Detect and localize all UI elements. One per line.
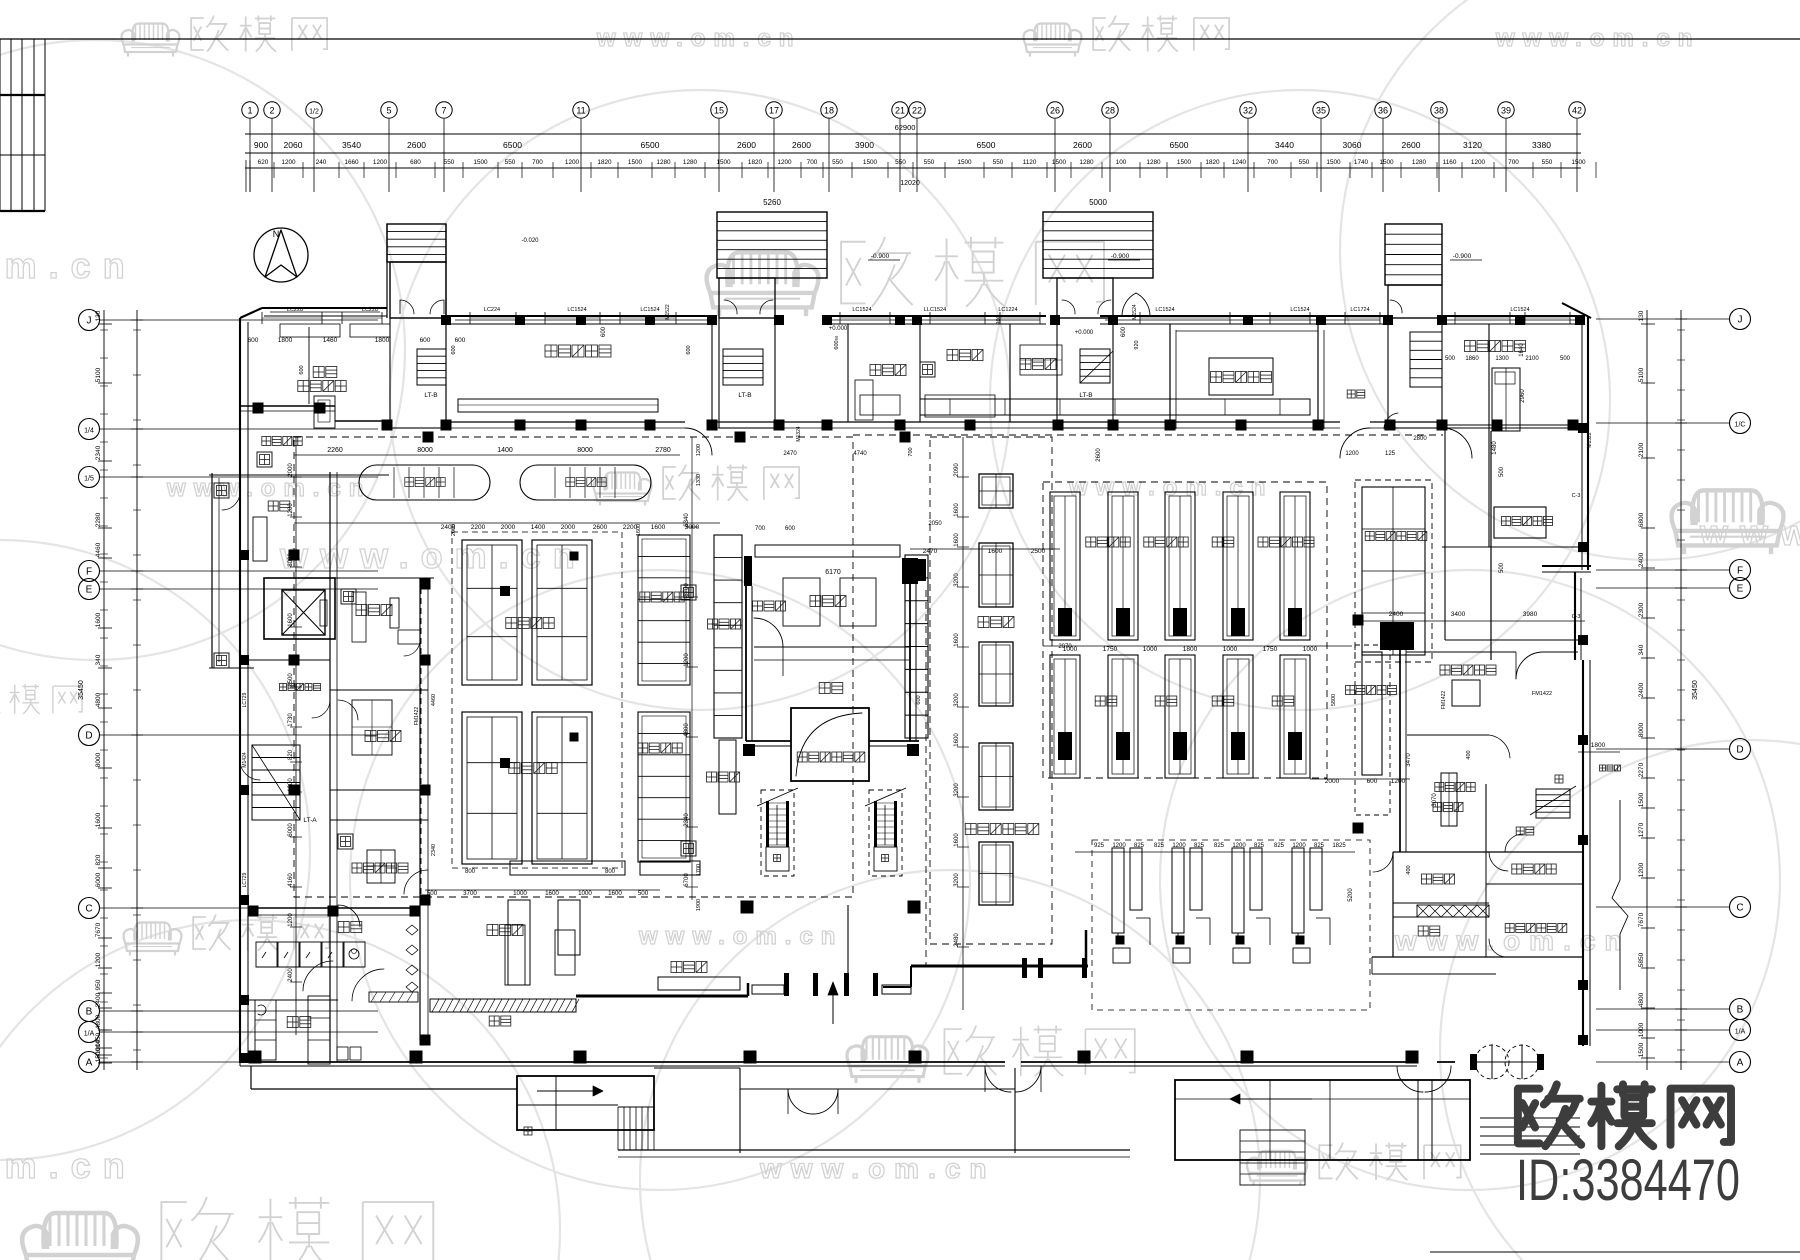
svg-text:825: 825 — [1134, 843, 1145, 849]
svg-text:4800: 4800 — [95, 692, 102, 707]
weak power room — [1516, 827, 1534, 835]
svg-text:500: 500 — [1560, 356, 1571, 362]
svg-text:700: 700 — [807, 159, 818, 166]
svg-text:1200: 1200 — [1345, 451, 1359, 457]
svg-text:2050: 2050 — [928, 521, 942, 527]
svg-text:-0.900: -0.900 — [871, 253, 890, 260]
svg-text:600: 600 — [601, 326, 607, 337]
svg-text:1500: 1500 — [95, 1047, 102, 1062]
svg-text:100: 100 — [1116, 159, 1127, 166]
svg-text:1600: 1600 — [954, 503, 960, 517]
svg-text:2600: 2600 — [593, 524, 608, 531]
svg-text:6500: 6500 — [1170, 140, 1189, 150]
svg-text:LT-B: LT-B — [1079, 392, 1092, 399]
svg-text:C: C — [85, 904, 92, 915]
svg-text:17: 17 — [769, 106, 779, 116]
svg-text:1400: 1400 — [497, 447, 513, 454]
svg-text:11: 11 — [576, 106, 585, 116]
svg-text:7670: 7670 — [95, 922, 102, 937]
svg-text:550: 550 — [924, 159, 935, 166]
east site break line — [1619, 800, 1621, 880]
stair to upper right — [1536, 789, 1570, 818]
top dimension line 1 — [245, 133, 1581, 135]
svg-text:www.om.cn: www.om.cn — [1068, 474, 1273, 501]
svg-text:LC729: LC729 — [242, 692, 248, 707]
north wall left section — [240, 308, 262, 318]
svg-text:1500: 1500 — [473, 159, 488, 166]
svg-text:1600: 1600 — [636, 524, 642, 536]
svg-text:1000: 1000 — [513, 890, 527, 897]
produce shelf blocks group2 — [462, 712, 522, 864]
warehouse walls — [744, 556, 752, 586]
svg-text:3470: 3470 — [1406, 753, 1412, 767]
left wing door arcs — [222, 492, 240, 510]
svg-text:62900: 62900 — [895, 123, 916, 132]
svg-text:6170: 6170 — [825, 569, 841, 576]
imported food zone — [1407, 734, 1489, 736]
svg-text:500: 500 — [1499, 562, 1505, 573]
svg-text:E: E — [86, 585, 93, 596]
svg-text:825: 825 — [1214, 843, 1225, 849]
svg-text:130: 130 — [1638, 310, 1645, 321]
svg-text:550: 550 — [832, 159, 843, 166]
dashed boundary checkout — [1092, 840, 1370, 1010]
svg-text:42: 42 — [1572, 106, 1582, 116]
bottom separate line — [1430, 1251, 1800, 1253]
svg-text:1600: 1600 — [288, 613, 294, 627]
water riser boxes — [920, 362, 935, 377]
svg-text:1200: 1200 — [281, 159, 296, 166]
svg-text:6000: 6000 — [95, 872, 102, 887]
svg-text:925: 925 — [1094, 843, 1105, 849]
revolving door — [1475, 1045, 1509, 1079]
svg-text:www.om.cn: www.om.cn — [638, 923, 843, 950]
svg-text:1820: 1820 — [1205, 159, 1220, 166]
svg-text:C-3: C-3 — [1572, 493, 1581, 499]
detergent zone room — [1494, 507, 1546, 538]
svg-text:C-3: C-3 — [1572, 614, 1581, 620]
svg-text:920: 920 — [1134, 340, 1140, 349]
svg-text:D: D — [1736, 745, 1743, 756]
svg-text:LT-A: LT-A — [303, 817, 317, 824]
svg-text:5: 5 — [386, 106, 391, 116]
svg-text:2600: 2600 — [792, 140, 811, 150]
svg-text:3380: 3380 — [1532, 140, 1551, 150]
service window crosshatch — [1417, 905, 1489, 917]
svg-text:3400: 3400 — [1451, 611, 1466, 618]
svg-text:35450: 35450 — [1692, 680, 1699, 700]
svg-text:2000: 2000 — [561, 524, 576, 531]
svg-text:1500: 1500 — [863, 159, 878, 166]
svg-text:1820: 1820 — [597, 159, 612, 166]
svg-text:500: 500 — [1499, 466, 1505, 477]
svg-text:825: 825 — [1314, 843, 1325, 849]
cigarette zone — [1355, 645, 1390, 815]
svg-text:1600: 1600 — [608, 890, 622, 897]
svg-text:LC1524: LC1524 — [567, 307, 586, 313]
site wall columns — [249, 1051, 262, 1064]
svg-text:1820: 1820 — [748, 159, 763, 166]
svg-text:2100: 2100 — [1525, 356, 1539, 362]
svg-text:600: 600 — [686, 345, 692, 354]
svg-text:1800: 1800 — [278, 337, 293, 344]
svg-text:2: 2 — [269, 106, 274, 116]
svg-text:www.om.cn: www.om.cn — [759, 1153, 996, 1184]
svg-text:4740: 4740 — [853, 451, 867, 457]
porch outswing doors — [985, 1066, 1011, 1092]
svg-text:3070: 3070 — [1432, 793, 1438, 807]
room labels top strip — [313, 367, 337, 378]
svg-text:700: 700 — [908, 447, 914, 456]
svg-text:1/4: 1/4 — [84, 428, 94, 435]
svg-text:7670: 7670 — [1638, 912, 1645, 927]
svg-text:1200: 1200 — [777, 159, 792, 166]
svg-text:A: A — [86, 1058, 93, 1069]
female stalls — [255, 1000, 276, 1060]
svg-text:1860: 1860 — [1465, 356, 1479, 362]
svg-text:340: 340 — [95, 654, 102, 665]
svg-text:6000: 6000 — [288, 823, 294, 837]
svg-text:1500: 1500 — [1326, 159, 1341, 166]
checkout lanes — [1112, 848, 1124, 933]
svg-text:600: 600 — [299, 365, 305, 374]
watermark logos row3 — [124, 915, 330, 956]
svg-text:FM1422: FM1422 — [414, 707, 420, 726]
svg-text:LC1524: LC1524 — [640, 307, 659, 313]
svg-text:2400: 2400 — [288, 968, 294, 982]
svg-text:400: 400 — [1406, 865, 1412, 874]
svg-text:2480: 2480 — [954, 933, 960, 947]
svg-text:3200: 3200 — [954, 873, 960, 887]
svg-text:1600: 1600 — [954, 533, 960, 547]
cosmetics room bottom wall — [1443, 424, 1585, 426]
north compass — [254, 228, 308, 282]
warehouse inner wall with door — [754, 646, 909, 648]
svg-text:B: B — [86, 1007, 93, 1018]
svg-text:700: 700 — [532, 159, 543, 166]
svg-text:www.om.cn: www.om.cn — [0, 245, 137, 286]
top dimension line 2 with ticks — [245, 167, 1581, 169]
promoter tables — [505, 925, 525, 985]
svg-text:1280: 1280 — [1146, 159, 1161, 166]
svg-text:1280: 1280 — [1079, 159, 1094, 166]
svg-text:1/2: 1/2 — [309, 109, 319, 116]
spice/grain counters — [755, 545, 900, 557]
plaza left outline — [250, 1066, 252, 1089]
svg-text:6500: 6500 — [503, 140, 522, 150]
svg-text:1740: 1740 — [1354, 159, 1369, 166]
svg-text:2340: 2340 — [431, 844, 437, 856]
svg-text:1600: 1600 — [954, 633, 960, 647]
svg-text:1: 1 — [247, 106, 252, 116]
seafood room fixtures — [314, 396, 335, 428]
svg-text:ID:3384470: ID:3384470 — [1516, 1148, 1740, 1213]
watermark circles — [390, 90, 1010, 710]
svg-text:A: A — [1737, 1058, 1744, 1069]
svg-text:LC228: LC228 — [362, 307, 378, 313]
svg-text:8000: 8000 — [417, 447, 433, 454]
svg-text:800: 800 — [465, 869, 476, 875]
svg-text:680: 680 — [410, 159, 421, 166]
escalators — [761, 790, 794, 876]
svg-text:www.om.cn: www.om.cn — [0, 1145, 137, 1186]
svg-text:130: 130 — [95, 310, 102, 321]
svg-text:8000: 8000 — [95, 752, 102, 767]
svg-text:1120: 1120 — [1023, 159, 1037, 166]
grain east rack — [905, 555, 928, 738]
svg-text:1200: 1200 — [684, 653, 690, 667]
svg-text:+0.000: +0.000 — [1075, 330, 1094, 336]
columns center floor — [1353, 615, 1364, 626]
svg-text:2270: 2270 — [1638, 762, 1645, 777]
svg-text:1600: 1600 — [954, 733, 960, 747]
cosmetics furniture — [1492, 368, 1520, 431]
svg-text:550: 550 — [1299, 159, 1310, 166]
svg-text:www.om.cn: www.om.cn — [279, 535, 587, 576]
svg-text:1200: 1200 — [1292, 843, 1306, 849]
svg-text:39: 39 — [1501, 106, 1511, 116]
svg-text:2340: 2340 — [95, 445, 102, 460]
svg-text:1660: 1660 — [344, 159, 359, 166]
svg-text:5800: 5800 — [1331, 694, 1337, 706]
svg-text:1730: 1730 — [288, 713, 294, 727]
svg-text:8000: 8000 — [1638, 722, 1645, 737]
svg-text:M1524: M1524 — [1132, 304, 1138, 320]
svg-text:1200: 1200 — [696, 444, 702, 456]
watermark big instances — [707, 237, 1104, 316]
svg-text:LLC1524: LLC1524 — [924, 307, 946, 313]
svg-text:1500: 1500 — [1052, 159, 1067, 166]
svg-text:1600: 1600 — [95, 812, 102, 827]
svg-text:550: 550 — [1542, 159, 1553, 166]
svg-text:1000: 1000 — [1303, 646, 1318, 653]
svg-text:2070: 2070 — [1058, 644, 1072, 650]
grid-A site wall — [240, 1061, 1005, 1063]
svg-text:2600: 2600 — [1402, 140, 1421, 150]
svg-text:LT-B: LT-B — [738, 392, 751, 399]
svg-text:B: B — [1737, 1005, 1744, 1016]
svg-text:3200: 3200 — [954, 783, 960, 797]
svg-text:2600: 2600 — [407, 140, 426, 150]
svg-text:550: 550 — [993, 159, 1004, 166]
wine zone — [1399, 650, 1401, 852]
svg-text:2060: 2060 — [284, 140, 303, 150]
svg-text:5850: 5850 — [1638, 952, 1645, 967]
svg-text:550: 550 — [505, 159, 516, 166]
svg-text:2400: 2400 — [1638, 682, 1645, 697]
svg-text:1280: 1280 — [683, 159, 698, 166]
svg-text:1460: 1460 — [323, 337, 338, 344]
svg-text:M1324: M1324 — [796, 426, 802, 442]
svg-text:5260: 5260 — [763, 198, 781, 207]
north strip south wall — [446, 421, 685, 423]
svg-text:M: M — [834, 336, 839, 340]
svg-text:550: 550 — [895, 159, 906, 166]
produce shelf blocks group1 — [462, 540, 522, 685]
svg-text:600: 600 — [1121, 326, 1127, 337]
svg-text:1200: 1200 — [1638, 862, 1645, 877]
svg-text:825: 825 — [1254, 843, 1265, 849]
north wall mid section — [446, 315, 717, 317]
promo zone — [671, 962, 707, 973]
interior vertical dim line x690 — [691, 437, 693, 900]
svg-text:1300: 1300 — [1495, 356, 1509, 362]
svg-text:1/5: 1/5 — [84, 476, 94, 483]
svg-text:1700: 1700 — [696, 864, 702, 876]
svg-text:600: 600 — [916, 695, 922, 704]
center porch — [654, 1067, 740, 1069]
svg-text:5100: 5100 — [1638, 367, 1645, 382]
svg-text:5200: 5200 — [1348, 888, 1354, 902]
svg-text:825: 825 — [1194, 843, 1205, 849]
svg-text:2200: 2200 — [471, 524, 486, 531]
svg-text:1500: 1500 — [957, 159, 972, 166]
svg-text:500: 500 — [638, 890, 649, 897]
svg-text:1200: 1200 — [95, 952, 102, 967]
svg-text:1200: 1200 — [1112, 843, 1126, 849]
left grid bubbles — [79, 310, 100, 331]
svg-text:M1424: M1424 — [242, 752, 248, 768]
svg-text:1500: 1500 — [716, 159, 731, 166]
svg-text:3120: 3120 — [1463, 140, 1482, 150]
right canopy steps — [1480, 1117, 1580, 1119]
left wing labels — [262, 437, 302, 446]
svg-text:2300: 2300 — [1638, 602, 1645, 617]
svg-text:820: 820 — [95, 854, 102, 865]
svg-text:3900: 3900 — [855, 140, 874, 150]
svg-text:3440: 3440 — [1275, 140, 1294, 150]
stair LT-A — [252, 745, 300, 820]
top-left schedule table — [0, 39, 1, 211]
svg-text:825: 825 — [1154, 843, 1165, 849]
svg-text:2400: 2400 — [95, 992, 102, 1007]
svg-text:1/C: 1/C — [1735, 422, 1746, 429]
columns interior left wall — [420, 579, 431, 590]
svg-text:www.om.cn: www.om.cn — [1699, 512, 1800, 553]
meat room counter — [458, 399, 658, 412]
columns top wall — [441, 315, 451, 325]
M1524 double door — [1122, 293, 1136, 316]
left dimension columns — [103, 310, 105, 1070]
svg-text:2400: 2400 — [1389, 611, 1404, 618]
svg-text:D: D — [85, 731, 92, 742]
stair shaft below T1 (LT-B) — [390, 318, 446, 428]
svg-text:15: 15 — [714, 106, 724, 116]
svg-text:C: C — [1736, 903, 1743, 914]
svg-text:1500: 1500 — [1638, 1042, 1645, 1057]
svg-text:3540: 3540 — [342, 140, 361, 150]
svg-text:2780: 2780 — [655, 447, 671, 454]
svg-text:2600: 2600 — [1073, 140, 1092, 150]
svg-text:8000: 8000 — [577, 447, 593, 454]
svg-text:1280: 1280 — [656, 159, 671, 166]
east wall with chamfer — [1562, 303, 1591, 318]
stair tower T4 — [1385, 224, 1442, 285]
svg-text:1800: 1800 — [1183, 646, 1198, 653]
svg-text:4800: 4800 — [684, 723, 690, 737]
svg-text:2600: 2600 — [737, 140, 756, 150]
door arcs on south wall of north strip — [685, 428, 712, 455]
svg-text:3200: 3200 — [954, 573, 960, 587]
svg-text:2000: 2000 — [501, 524, 516, 531]
svg-text:12020: 12020 — [900, 180, 920, 187]
svg-text:2960: 2960 — [1520, 389, 1526, 403]
entrance door group 2 — [1022, 958, 1027, 978]
svg-text:3200: 3200 — [954, 693, 960, 707]
svg-text:4460: 4460 — [431, 694, 437, 706]
svg-text:LC1524: LC1524 — [1510, 307, 1529, 313]
svg-text:F: F — [1737, 566, 1743, 577]
svg-text:35: 35 — [1316, 106, 1326, 116]
right wing interior wall — [1488, 324, 1490, 547]
dashed border around produce — [452, 532, 622, 868]
svg-text:500: 500 — [1445, 356, 1456, 362]
svg-text:3700: 3700 — [463, 890, 477, 897]
svg-text:2600: 2600 — [1096, 448, 1102, 462]
svg-text:1000: 1000 — [1638, 1022, 1645, 1037]
left entry stair block — [517, 1076, 654, 1130]
urinals — [406, 925, 418, 935]
svg-text:800: 800 — [605, 869, 616, 875]
svg-text:4800: 4800 — [95, 1014, 102, 1029]
black om.cn brand logo — [1518, 1084, 1731, 1146]
bread room table — [352, 700, 392, 755]
svg-text:6500: 6500 — [641, 140, 660, 150]
office block — [1392, 852, 1394, 957]
right grid bubbles — [1730, 309, 1751, 330]
svg-text:LC729: LC729 — [242, 872, 248, 887]
svg-text:35450: 35450 — [78, 680, 85, 700]
svg-text:1330: 1330 — [696, 474, 702, 486]
svg-text:1160: 1160 — [1443, 159, 1457, 166]
svg-text:2090: 2090 — [954, 463, 960, 477]
svg-text:32: 32 — [1243, 106, 1253, 116]
svg-text:6500: 6500 — [977, 140, 996, 150]
dashed boundary left of cooked food — [420, 578, 422, 897]
svg-text:LT-B: LT-B — [424, 392, 437, 399]
svg-text:3060: 3060 — [1343, 140, 1362, 150]
right dimension columns — [1646, 310, 1648, 1070]
sales floor south boundary with entrance — [576, 995, 748, 998]
svg-text:1750: 1750 — [1103, 646, 1118, 653]
cooked food fixtures — [352, 592, 366, 642]
svg-text:1/A: 1/A — [84, 1031, 95, 1038]
svg-text:600: 600 — [451, 345, 457, 354]
dashed sales area boundary left — [294, 437, 853, 897]
toilet wall — [250, 907, 420, 909]
watermark logos row2 — [594, 465, 800, 506]
frozen food racks — [638, 535, 690, 685]
north strip partitions — [445, 324, 447, 422]
svg-text:21: 21 — [895, 106, 905, 116]
svg-text:900: 900 — [254, 140, 268, 150]
svg-text:1900: 1900 — [696, 899, 702, 911]
sinks — [337, 1047, 348, 1060]
north wall right section — [827, 315, 1046, 317]
stair tower T2 — [717, 212, 827, 278]
stair tower T1 — [387, 224, 446, 262]
middle shelf row — [1050, 655, 1080, 778]
window mullions north wall — [261, 312, 263, 324]
drink racks — [714, 535, 742, 738]
svg-text:3980: 3980 — [1523, 611, 1538, 618]
svg-text:1600: 1600 — [95, 612, 102, 627]
canopy bottom edge — [618, 1149, 1130, 1151]
svg-text:36: 36 — [1378, 106, 1388, 116]
svg-text:1200: 1200 — [288, 503, 294, 517]
svg-text:2800: 2800 — [1413, 436, 1427, 442]
svg-text:340: 340 — [1638, 644, 1645, 655]
